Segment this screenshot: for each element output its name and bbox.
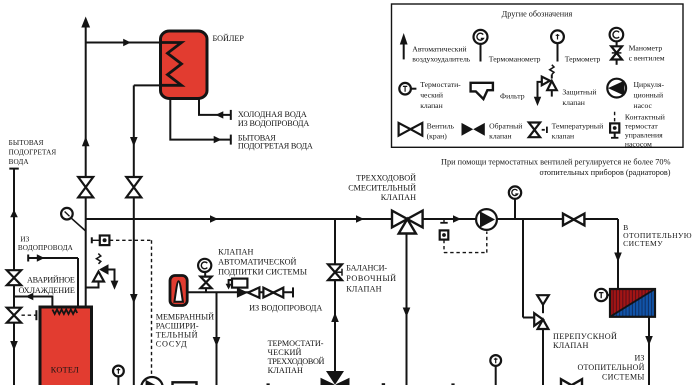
svg-text:ИЗ ВОДОПРОВОДА: ИЗ ВОДОПРОВОДА [238, 119, 310, 128]
svg-text:Манометр: Манометр [629, 44, 663, 53]
svg-text:Вентиль: Вентиль [427, 122, 455, 131]
arrow down 2 on return [130, 294, 138, 304]
svg-text:клапан: клапан [420, 101, 443, 110]
svg-text:клапан: клапан [552, 131, 575, 140]
gauge (manometer with needle) [61, 208, 86, 231]
shut-off valve on make-up [263, 288, 283, 298]
thermometer t (bottom left) [113, 366, 124, 385]
arrow up on left riser [10, 210, 18, 218]
label: В ОТОПИТЕЛЬНУЮ СИСТЕМУ [623, 223, 692, 248]
svg-text:ИЗ ВОДОПРОВОДА: ИЗ ВОДОПРОВОДА [249, 303, 322, 312]
svg-text:РАСШИРИ-: РАСШИРИ- [156, 322, 199, 331]
svg-text:Термометр: Термометр [565, 54, 601, 63]
svg-text:КЛАПАН: КЛАПАН [381, 193, 417, 202]
thermometer t on return [490, 355, 501, 385]
legend: safety valve [534, 65, 557, 106]
svg-text:БЫТОВАЯ: БЫТОВАЯ [9, 139, 44, 147]
label: ТЕРМОСТАТИЧЕСКИЙ ТРЕХХОДОВОЙ КЛАПАН [268, 339, 325, 375]
wire: mixing valve bottom port down [406, 234, 408, 385]
label: КЛАПАН АВТОМАТИЧЕСКОЙ ПОДПИТКИ СИСТЕМЫ [218, 248, 307, 277]
arrow down on make-up feed [213, 337, 221, 347]
wire: make-up feed down [216, 292, 218, 385]
arrow right on tank supply [123, 39, 131, 46]
legend: thermostatic valve [399, 83, 416, 95]
svg-text:ТРЕХХОДОВОЙ: ТРЕХХОДОВОЙ [268, 357, 325, 366]
svg-text:Термостати-: Термостати- [420, 80, 461, 89]
valve V2 on left riser [7, 308, 21, 323]
svg-text:МЕМБРАННЫЙ: МЕМБРАННЫЙ [156, 313, 215, 322]
arrow down on left riser [10, 341, 18, 351]
svg-text:термостат: термостат [625, 122, 658, 131]
thermostatic three-way valve (bottom, partial) [321, 371, 350, 385]
wire: cold water in to tank [199, 99, 231, 120]
legend: shut-off valve [399, 123, 423, 136]
svg-text:клапан: клапан [489, 131, 512, 140]
contact thermostat (near pump) [440, 219, 449, 240]
arrow down on mixing drop [403, 308, 411, 318]
valve V4 on return [126, 177, 141, 197]
legend: thermomanometer [474, 30, 488, 62]
balancing valve [328, 264, 342, 280]
arrow down on radiator return [645, 336, 653, 346]
valve V3 on main riser [78, 177, 93, 197]
caption under legend [441, 158, 671, 178]
shut-off valve on supply [563, 214, 584, 226]
bypass relief valve [534, 295, 549, 385]
svg-text:БОЙЛЕР: БОЙЛЕР [213, 34, 245, 43]
label: ПЕРЕПУСКНОЙ КЛАПАН [553, 332, 617, 350]
wire: balancing branch [334, 219, 336, 372]
svg-text:насос: насос [634, 101, 653, 110]
contact thermostat (left, on riser) [92, 236, 110, 246]
arrow right on supply 3 [453, 215, 461, 222]
arrow down to radiator [614, 253, 622, 263]
svg-text:КЛАПАН: КЛАПАН [218, 248, 254, 257]
svg-text:с вентилем: с вентилем [629, 54, 665, 63]
wire: supply to DHW tank [86, 42, 161, 44]
dashed control wire to floor pump [110, 240, 152, 376]
svg-text:ционный: ционный [634, 90, 664, 99]
label: МЕМБРАННЫЙ РАСШИРИТЕЛЬНЫЙ СОСУД [156, 313, 215, 349]
svg-text:КОТЕЛ: КОТЕЛ [51, 365, 79, 374]
thermostatic head T on radiator [595, 289, 610, 301]
svg-text:Термоманометр: Термоманометр [489, 54, 541, 63]
wire: supply corner down to radiator [617, 219, 619, 290]
svg-text:ОХЛАЖДЕНИЕ: ОХЛАЖДЕНИЕ [19, 286, 76, 295]
svg-text:ПОДПИТКИ СИСТЕМЫ: ПОДПИТКИ СИСТЕМЫ [218, 268, 307, 277]
svg-text:КЛАПАН: КЛАПАН [268, 366, 304, 375]
svg-text:Циркуля-: Циркуля- [634, 80, 665, 89]
three-way mixing valve [392, 211, 423, 234]
valve V1 on left riser [7, 270, 21, 285]
svg-text:ВОДОПРОВОДА: ВОДОПРОВОДА [18, 244, 74, 252]
arrow down on return [130, 137, 138, 147]
wire: main hot riser [85, 27, 87, 308]
arrow up on balancing branch [331, 313, 339, 323]
svg-text:ОТОПИТЕЛЬНОЙ: ОТОПИТЕЛЬНОЙ [578, 363, 645, 372]
svg-text:ческий: ческий [420, 90, 443, 99]
dashed link from V2 to boiler [22, 310, 37, 320]
wire: main supply line (horizontal) [86, 218, 618, 220]
arrow up on main riser [82, 137, 90, 147]
wire: tank coil return horizontal [134, 84, 161, 86]
svg-text:КЛАПАН: КЛАПАН [346, 285, 382, 294]
arrow left on cold in [216, 111, 224, 118]
label: ХОЛОДНАЯ ВОДА ИЗ ВОДОПРОВОДА [238, 110, 310, 128]
check valve on return (partial) [561, 379, 582, 385]
svg-text:ИЗ: ИЗ [20, 236, 29, 244]
arrow left on drain [26, 293, 34, 300]
wire: drain drop to coil [51, 296, 53, 311]
svg-text:Контактный: Контактный [625, 113, 665, 122]
svg-text:Фильтр: Фильтр [500, 91, 525, 100]
wire: boiler return (from tank coil) [133, 85, 135, 385]
wire: radiator return down [648, 317, 650, 385]
svg-text:АВАРИЙНОЕ: АВАРИЙНОЕ [27, 276, 75, 285]
air vent arrow (top) [81, 17, 90, 28]
svg-text:СМЕСИТЕЛЬНЫЙ: СМЕСИТЕЛЬНЫЙ [348, 183, 416, 192]
wire: make-up line [187, 287, 293, 297]
legend: check valve [462, 123, 485, 136]
legend: filter [471, 83, 493, 99]
svg-text:СИСТЕМУ: СИСТЕМУ [623, 239, 663, 248]
arrow right on supply 2 [356, 215, 364, 222]
label: ИЗ ВОДОПРОВОДА (left) [18, 236, 74, 253]
svg-text:При помощи термостатных вентил: При помощи термостатных вентилей регулир… [441, 158, 671, 167]
svg-text:клапан: клапан [562, 98, 585, 107]
svg-text:ВОДА: ВОДА [9, 158, 30, 166]
membrane expansion vessel [170, 276, 187, 306]
label: БЫТОВАЯ ПОДОГРЕТАЯ ВОДА (right) [238, 133, 313, 150]
legend box [392, 4, 684, 147]
svg-text:отопительных приборов (радиато: отопительных приборов (радиаторов) [540, 168, 671, 177]
svg-text:СОСУД: СОСУД [156, 340, 187, 349]
legend: manometer with valve [610, 28, 624, 65]
svg-text:Обратный: Обратный [489, 122, 522, 131]
make-up reducer valve (box with arrow) [226, 279, 248, 290]
label: БЫТОВАЯ ПОДОГРЕТАЯ ВОДА (left) [9, 139, 57, 166]
safety valve assembly on kotel riser [86, 254, 119, 290]
wire: domestic hot water left riser [9, 169, 18, 385]
wire: cold water inlet to coil [28, 255, 78, 311]
svg-text:Температурный: Температурный [552, 122, 604, 131]
legend: temperature valve [529, 123, 547, 138]
svg-text:Автоматический: Автоматический [412, 45, 466, 54]
svg-text:АВТОМАТИЧЕСКОЙ: АВТОМАТИЧЕСКОЙ [218, 258, 297, 267]
svg-text:ТЕЛЬНЫЙ: ТЕЛЬНЫЙ [156, 331, 198, 340]
svg-text:ПОДОГРЕТАЯ: ПОДОГРЕТАЯ [9, 149, 57, 157]
circulation pump [476, 209, 497, 230]
svg-text:ИЗ: ИЗ [634, 354, 644, 363]
svg-text:ПОДОГРЕТАЯ ВОДА: ПОДОГРЕТАЯ ВОДА [238, 142, 313, 151]
svg-text:насосом: насосом [625, 140, 652, 149]
make-up valve (filled/open) [237, 287, 260, 297]
svg-text:управления: управления [625, 131, 663, 140]
svg-text:(кран): (кран) [427, 131, 448, 140]
svg-text:КЛАПАН: КЛАПАН [553, 341, 589, 350]
bottom edge tick marks [267, 383, 455, 385]
wire: emergency coil drain (horizontal) [14, 296, 52, 298]
wire: domestic hot water out of tank [170, 99, 231, 145]
floor pump (partial, bottom) [141, 377, 163, 385]
svg-text:ТРЕХХОДОВОЙ: ТРЕХХОДОВОЙ [356, 173, 416, 182]
svg-text:ЧЕСКИЙ: ЧЕСКИЙ [268, 348, 302, 357]
svg-text:Другие обозначения: Другие обозначения [502, 10, 573, 19]
label: ТРЕХХОДОВОЙ СМЕСИТЕЛЬНЫЙ КЛАПАН [348, 173, 416, 202]
legend: automatic air vent [400, 33, 408, 59]
boiler КОТЕЛ [40, 307, 92, 385]
arrow right on dhw out [214, 136, 222, 143]
wire: bypass branch [523, 219, 534, 318]
arrow right on supply 1 [210, 215, 218, 222]
svg-text:РОВОЧНЫЙ: РОВОЧНЫЙ [346, 274, 396, 283]
thermomanometer G on supply [509, 186, 521, 219]
label: АВАРИЙНОЕ ОХЛАЖДЕНИЕ [19, 276, 76, 295]
svg-text:ХОЛОДНАЯ ВОДА: ХОЛОДНАЯ ВОДА [238, 110, 307, 119]
svg-text:воздухоудалитель: воздухоудалитель [412, 54, 470, 63]
legend: contact thermostat [610, 112, 619, 138]
DHW tank (БОЙЛЕР) [161, 31, 208, 99]
svg-text:БАЛАНСИ-: БАЛАНСИ- [346, 264, 387, 273]
svg-text:ПЕРЕПУСКНОЙ: ПЕРЕПУСКНОЙ [553, 332, 617, 341]
svg-text:ТЕРМОСТАТИ-: ТЕРМОСТАТИ- [268, 339, 324, 348]
filter box (partial, bottom) [173, 382, 197, 385]
dashed control wire to pump [444, 232, 487, 253]
radiator [610, 289, 655, 317]
manometer with valve (on make-up) [198, 259, 212, 293]
label: БАЛАНСИРОВОЧНЫЙ КЛАПАН [346, 264, 396, 294]
svg-text:СИСТЕМЫ: СИСТЕМЫ [602, 373, 645, 382]
legend: circulation pump [607, 79, 626, 98]
arrow right on coil inlet [37, 254, 45, 261]
svg-text:Защитный: Защитный [562, 88, 596, 97]
label: ИЗ ОТОПИТЕЛЬНОЙ СИСТЕМЫ [578, 354, 645, 382]
legend: thermometer [551, 30, 564, 61]
